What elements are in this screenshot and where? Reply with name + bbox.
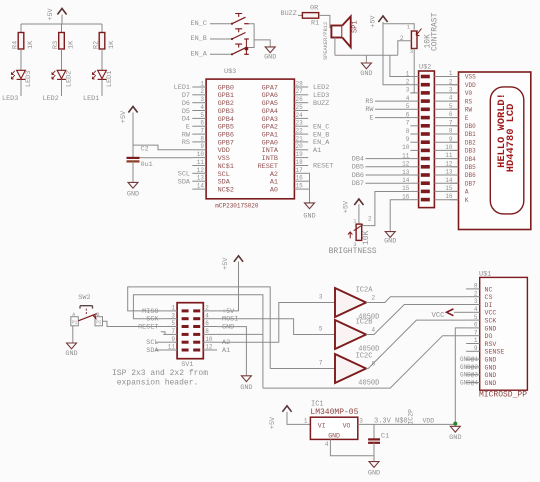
svg-text:DB6: DB6 (352, 172, 364, 180)
wire U$2 pin 7 to LCD (434, 125, 458, 127)
LCD text HELLO WORLD! (496, 93, 508, 168)
ground (SW2) (65, 343, 77, 358)
pin 21 GPA0 (U$3) (262, 135, 331, 147)
wire U$2 pin 11 to LCD (434, 158, 458, 160)
svg-text:D7: D7 (182, 92, 190, 100)
wire +5V to brightness pot (358, 204, 360, 224)
svg-text:A2: A2 (270, 171, 278, 179)
pin 25 GPA4 (U$3) (262, 104, 309, 116)
svg-text:EN_A: EN_A (313, 139, 330, 147)
svg-text:SP1: SP1 (352, 20, 360, 33)
svg-text:BUZZ: BUZZ (281, 10, 297, 18)
svg-text:4: 4 (325, 441, 329, 448)
power +5V supply (SV1) (222, 256, 243, 270)
resistor R2 1K (92, 24, 116, 49)
pin 4 (SV1) (193, 312, 238, 323)
svg-text:NC$2: NC$2 (218, 187, 234, 195)
svg-text:BUZZ: BUZZ (313, 100, 329, 108)
svg-text:12: 12 (197, 167, 205, 174)
wire SV1 pin8 tie (217, 333, 263, 335)
svg-text:DB7: DB7 (352, 180, 364, 188)
wire IC2C output to SCK (366, 320, 466, 368)
svg-text:4: 4 (449, 95, 453, 102)
svg-text:16: 16 (296, 175, 304, 182)
header U$2 name (419, 64, 431, 72)
svg-text:3: 3 (359, 418, 363, 425)
wire U$1 GND to junction (455, 328, 466, 424)
pin 14 DB7 (LCD) (445, 177, 476, 188)
wire LED1 cathode (101, 80, 103, 96)
svg-text:GPA1: GPA1 (262, 132, 278, 140)
svg-text:DB4: DB4 (352, 156, 364, 164)
svg-text:LED1: LED1 (106, 71, 114, 87)
svg-text:2: 2 (372, 295, 376, 302)
wire SDA stub (SV1) (156, 349, 163, 351)
svg-text:3: 3 (171, 312, 175, 319)
net label EN_A (191, 51, 208, 59)
svg-text:E: E (186, 123, 190, 131)
resistor R3 1K (52, 24, 76, 49)
svg-text:7: 7 (406, 120, 410, 127)
svg-text:17: 17 (296, 167, 304, 174)
svg-text:24: 24 (296, 112, 304, 119)
svg-text:8: 8 (406, 128, 410, 135)
wire MOSI net to IC2B input (217, 319, 335, 335)
value MCP23017SO20 (U$3) (215, 202, 259, 209)
pin 4 GPB3 (U$3) (182, 104, 234, 116)
wire U$2 pin16 K to ground (390, 200, 410, 232)
wire contrast wiper to ground rail (398, 41, 412, 55)
svg-text:GPA5: GPA5 (262, 100, 278, 108)
net label 3.3V N$0 (374, 418, 408, 426)
pin 14 (U$2) (402, 177, 430, 185)
wire R4 to LED3 (20, 49, 22, 70)
svg-text:RS: RS (182, 139, 190, 147)
svg-text:RESET: RESET (138, 323, 158, 331)
net label DB4 (LCD) (352, 156, 411, 164)
pin 7 (SV1) (163, 328, 188, 336)
svg-text:VDD: VDD (465, 82, 476, 89)
svg-text:E: E (465, 115, 469, 122)
svg-text:4050D: 4050D (358, 380, 379, 388)
switch EN_C (U$3) (231, 14, 249, 25)
svg-text:R3: R3 (52, 41, 60, 49)
pin 8 (U$2) (406, 128, 430, 136)
svg-text:SCK: SCK (146, 316, 159, 324)
svg-text:VCC: VCC (485, 310, 497, 317)
wire contrast pin3 to U$2 pin3 V0 (410, 49, 414, 93)
svg-text:11: 11 (168, 344, 176, 351)
svg-text:0u1: 0u1 (141, 161, 153, 169)
IC U$3 name (224, 68, 236, 76)
pin 2 (SV1) (193, 305, 235, 316)
capacitor C2 0u1 (127, 146, 153, 169)
svg-text:7: 7 (449, 119, 453, 126)
pin 16 K (LCD) (445, 193, 469, 204)
wire C2 to MCP VSS pin 10 (140, 157, 193, 159)
card socket U$1 body (480, 277, 528, 390)
svg-text:+5V: +5V (222, 308, 235, 316)
pin 18 RESET (U$3) (258, 159, 334, 171)
pin 24 GPA3 (U$3) (262, 112, 309, 124)
wire U$2 pin 3 to LCD (434, 92, 458, 94)
svg-text:8: 8 (205, 328, 209, 335)
svg-text:3: 3 (449, 87, 453, 94)
svg-text:6: 6 (200, 120, 204, 127)
pin 12 (U$2) (402, 161, 430, 169)
svg-text:RESET: RESET (258, 163, 278, 171)
pin 12 SCL (U$3) (178, 167, 230, 179)
svg-text:GPA4: GPA4 (262, 108, 278, 116)
pin 20 INTA (U$3) (262, 143, 322, 155)
pin 5 GPB4 (U$3) (182, 112, 234, 124)
svg-text:RESET: RESET (313, 163, 333, 171)
svg-text:BRIGHTNESS: BRIGHTNESS (329, 247, 377, 256)
pin 3 V0 (LCD) (449, 87, 473, 98)
svg-text:GND@4: GND@4 (460, 380, 478, 387)
power +5V supply (C2) (120, 107, 137, 124)
pin 26 GPA5 (U$3) (262, 96, 330, 108)
wire R3 to LED2 (61, 49, 63, 70)
svg-text:DB6: DB6 (465, 172, 476, 179)
svg-text:GND: GND (368, 469, 380, 477)
wire SCL stub (SV1) (156, 341, 163, 343)
svg-text:GND: GND (65, 350, 77, 358)
resistor R1 0R (302, 4, 319, 27)
svg-text:+5V: +5V (120, 110, 128, 123)
svg-text:8: 8 (449, 128, 453, 135)
svg-text:13: 13 (197, 175, 205, 182)
svg-text:23: 23 (296, 120, 304, 127)
pin 3 GPB2 (U$3) (182, 96, 234, 108)
svg-text:10: 10 (205, 336, 213, 343)
svg-text:MISO: MISO (142, 308, 158, 316)
svg-text:+5V: +5V (370, 15, 378, 28)
svg-text:A1: A1 (222, 347, 230, 355)
svg-text:10: 10 (402, 144, 410, 151)
pin 10 VSS (U$3) (192, 151, 230, 163)
svg-text:IC2C: IC2C (356, 353, 373, 361)
svg-text:12: 12 (445, 160, 453, 167)
pin 3 (SV1) (146, 312, 188, 323)
wire MISO net (128, 287, 271, 369)
svg-text:EN_C: EN_C (313, 123, 329, 131)
svg-text:6: 6 (205, 320, 209, 327)
wire +5V to MCP VDD pin 9 (133, 145, 192, 150)
svg-text:P2: P2 (96, 321, 102, 326)
ground (U$3 address pins) (303, 203, 315, 221)
svg-text:GPA2: GPA2 (262, 124, 278, 132)
svg-text:GND: GND (449, 434, 461, 442)
ground (IC1/C1) (368, 462, 380, 478)
svg-text:LED3: LED3 (2, 95, 18, 103)
svg-text:DO: DO (485, 333, 493, 340)
svg-text:16: 16 (445, 193, 453, 200)
svg-text:2: 2 (406, 79, 410, 86)
wire SV1 pin6 to ground (217, 327, 246, 376)
svg-text:DB4: DB4 (465, 156, 476, 163)
svg-text:1K: 1K (108, 40, 116, 49)
svg-text:LED3: LED3 (313, 92, 329, 100)
pin SENSE (U$1) (466, 345, 504, 356)
svg-text:RSV: RSV (485, 341, 497, 348)
wire SV1 pin7 stub jog (161, 332, 165, 335)
svg-text:SCL: SCL (218, 171, 230, 179)
wire U$2 pin 1 to LCD (434, 76, 458, 78)
header SV1 name (181, 361, 193, 369)
wire U$2 pin 5 to LCD (434, 108, 458, 110)
svg-text:GND: GND (222, 323, 234, 331)
svg-text:15: 15 (445, 185, 453, 192)
svg-text:EN_A: EN_A (191, 51, 208, 59)
net label DB5 (LCD) (352, 164, 411, 172)
svg-text:RW: RW (182, 131, 191, 139)
svg-text:5: 5 (200, 112, 204, 119)
svg-text:21: 21 (296, 135, 304, 142)
svg-text:10: 10 (197, 151, 205, 158)
pin 14 NC$2 (U$3) (192, 183, 234, 195)
svg-text:19: 19 (296, 151, 304, 158)
svg-text:R1: R1 (311, 20, 319, 28)
svg-text:26: 26 (296, 96, 304, 103)
svg-text:GPA6: GPA6 (262, 92, 278, 100)
pin GND (U$1) (460, 356, 496, 363)
pin 13 SDA (U$3) (178, 175, 231, 187)
pin 3 (U$2) (406, 87, 430, 95)
svg-text:GND: GND (485, 325, 497, 332)
pin 13 (U$2) (402, 169, 430, 177)
pin 10 (U$2) (402, 144, 430, 152)
pin 15 A0 (U$3) (270, 183, 308, 195)
wire A2 net to IC2A input (217, 303, 335, 343)
LCD text HD44780 LCD (505, 104, 517, 173)
svg-text:3: 3 (319, 294, 323, 301)
buffer IC2B 4050D (319, 319, 379, 354)
pin 11 (U$2) (402, 152, 430, 160)
svg-text:VCC: VCC (432, 312, 446, 320)
svg-text:EN_B: EN_B (191, 35, 207, 43)
pin 11 DB4 (LCD) (445, 152, 476, 163)
svg-text:IC2B: IC2B (356, 319, 373, 327)
wire +5V down to U$2 pin2 (383, 22, 410, 85)
wire EN_B to switch (210, 38, 232, 40)
svg-text:SDA: SDA (146, 347, 159, 355)
wire LED2 cathode (61, 80, 63, 96)
pin 2 VDD (LCD) (449, 78, 476, 89)
wire LED3 cathode (20, 80, 22, 96)
pin 6 (U$2) (406, 111, 430, 119)
pin 9 (SV1) (146, 336, 188, 347)
svg-text:CONTRAST: CONTRAST (431, 12, 440, 51)
svg-text:11: 11 (197, 159, 205, 166)
svg-text:10: 10 (445, 144, 453, 151)
svg-text:12: 12 (205, 344, 213, 351)
net label LED2 (43, 95, 59, 103)
value MICROSD_PP (U$1) (479, 390, 527, 399)
svg-text:D5: D5 (182, 108, 190, 116)
svg-text:VI: VI (318, 422, 326, 429)
svg-text:GND: GND (328, 433, 340, 440)
LED LED2 (52, 70, 74, 87)
pin 6 (SV1) (193, 320, 234, 331)
wire U$2 pin 9 to LCD (434, 141, 458, 143)
svg-text:4: 4 (474, 306, 478, 313)
wire EN_C switch to bus (246, 24, 254, 48)
svg-text:4: 4 (205, 312, 209, 319)
svg-text:13: 13 (445, 169, 453, 176)
svg-text:GPB3: GPB3 (218, 108, 234, 116)
pin 10 (SV1) (193, 336, 230, 347)
wire IC2B output to DI (366, 305, 466, 335)
net label VCC with arrow (432, 309, 467, 320)
pin GND (U$1) (460, 372, 496, 379)
svg-text:A2: A2 (222, 339, 230, 347)
svg-text:28: 28 (296, 80, 304, 87)
svg-text:5: 5 (319, 326, 323, 333)
svg-text:9: 9 (200, 143, 204, 150)
net label LED1 (83, 95, 99, 103)
wire EN_C to switch (210, 23, 232, 25)
power +5V supply (LED bank) (47, 7, 67, 24)
pin 12 DB5 (LCD) (445, 160, 476, 171)
svg-text:GND: GND (485, 380, 497, 387)
svg-text:LED2: LED2 (66, 71, 74, 87)
svg-text:RW: RW (465, 107, 473, 114)
svg-text:LM340MP-05: LM340MP-05 (310, 408, 358, 417)
wire EN_B switch drop (245, 39, 247, 49)
svg-text:1: 1 (406, 70, 410, 77)
svg-text:GND: GND (240, 384, 252, 392)
svg-text:EN_C: EN_C (191, 20, 207, 28)
svg-text:D6: D6 (182, 100, 190, 108)
wire U$2 pin 6 to LCD (434, 117, 458, 119)
svg-text:1: 1 (171, 305, 175, 312)
pushbutton SW2 name (78, 294, 90, 302)
pin 13 DB6 (LCD) (445, 169, 476, 180)
svg-text:GND: GND (384, 238, 396, 246)
wire MISO drop to IC2C input (270, 368, 335, 370)
wire +5V rail to resistors (21, 23, 102, 25)
svg-text:2: 2 (200, 88, 204, 95)
resistor R4 1K (11, 24, 35, 49)
net label EN_B (191, 35, 207, 43)
pin 9 VDD (U$3) (192, 143, 230, 155)
pin 15 A (LCD) (445, 185, 469, 196)
pin 7 DB0 (LCD) (449, 119, 476, 130)
wire U$2 pin 14 to LCD (434, 182, 458, 184)
svg-text:DI: DI (485, 302, 493, 309)
svg-text:SW2: SW2 (78, 294, 90, 302)
svg-text:GPA0: GPA0 (262, 139, 278, 147)
svg-text:SCL: SCL (178, 171, 190, 179)
buffer IC2A 4050D (319, 287, 379, 322)
regulator IC1 LM340MP-05 (310, 401, 358, 440)
svg-text:9: 9 (449, 136, 453, 143)
svg-text:DB0: DB0 (465, 123, 476, 130)
wire IC1 VO output 3.3V (358, 418, 456, 425)
pin 9 DB2 (LCD) (449, 136, 476, 147)
ground (VDD junction) (449, 426, 461, 442)
svg-text:R4: R4 (11, 41, 19, 49)
svg-text:22: 22 (296, 128, 304, 135)
svg-text:GND: GND (485, 357, 497, 364)
buffer IC2C 4050D (319, 353, 379, 388)
svg-text:1: 1 (304, 417, 308, 424)
wire EN_A switch rise (245, 49, 247, 55)
svg-text:5: 5 (449, 103, 453, 110)
ground (LCD backlight) (384, 232, 396, 246)
svg-text:27: 27 (296, 88, 304, 95)
svg-text:LED1: LED1 (174, 84, 190, 92)
svg-text:E: E (369, 115, 373, 123)
svg-text:6: 6 (474, 322, 478, 329)
wire EN_A to switch (210, 53, 232, 55)
svg-text:1: 1 (474, 337, 478, 344)
pin 16 A1 (U$3) (270, 175, 308, 187)
pin 4 (U$2) (406, 95, 430, 103)
svg-text:0R: 0R (310, 4, 318, 12)
svg-text:VDD: VDD (423, 417, 435, 424)
svg-text:A0: A0 (270, 187, 278, 195)
svg-text:15: 15 (296, 183, 304, 190)
svg-text:GPB6: GPB6 (218, 132, 234, 140)
svg-text:GND@1: GND@1 (460, 356, 478, 363)
pin 5 (SV1) (138, 320, 189, 331)
wire rail to U$2 pin1 VSS (390, 55, 411, 76)
pin VCC (U$1) (466, 306, 496, 317)
capacitor C1 (368, 424, 389, 455)
pin 2 GPB1 (U$3) (182, 88, 234, 100)
pin 6 E (LCD) (449, 111, 469, 122)
wire brightness wiper to U$2 pin15 A (362, 192, 411, 226)
pin 11 NC$1 (U$3) (192, 159, 234, 171)
ground (speaker) (360, 63, 372, 78)
svg-text:1K: 1K (68, 40, 76, 49)
svg-text:2: 2 (474, 290, 478, 297)
svg-text:IC2P: IC2P (408, 409, 415, 425)
junction VDD node (453, 422, 457, 426)
LED LED1 (92, 70, 114, 87)
svg-text:7: 7 (200, 128, 204, 135)
svg-text:K: K (465, 197, 469, 204)
svg-text:VO: VO (343, 422, 351, 429)
net label LED3 (2, 95, 18, 103)
svg-text:VDD: VDD (218, 147, 230, 155)
svg-text:14: 14 (197, 183, 205, 190)
wire C2 to ground (132, 161, 134, 182)
svg-text:EN_B: EN_B (313, 131, 329, 139)
pin 5 (U$2) (406, 103, 430, 111)
speaker SP1 (323, 16, 360, 60)
svg-text:2: 2 (449, 78, 453, 85)
svg-text:A: A (465, 189, 469, 196)
svg-text:GND: GND (264, 54, 276, 62)
wire +5V to IC1 VI (287, 412, 310, 425)
svg-text:11: 11 (445, 152, 453, 159)
pin 27 GPA6 (U$3) (262, 88, 330, 100)
wire U$3 A0/A1/A2 to ground (308, 173, 309, 202)
pin 10 DB3 (LCD) (445, 144, 476, 155)
caption ISP header (112, 369, 208, 388)
pin 6 GPB5 (U$3) (186, 120, 234, 132)
ground (EN switches) (264, 47, 276, 62)
svg-text:SENSE: SENSE (485, 349, 505, 356)
power +5V supply (IC1) (269, 406, 292, 429)
wire switch bus to ground (254, 40, 270, 47)
pin 4 RS (LCD) (449, 95, 473, 106)
svg-text:A1: A1 (270, 179, 278, 187)
svg-text:+5V: +5V (269, 416, 277, 429)
